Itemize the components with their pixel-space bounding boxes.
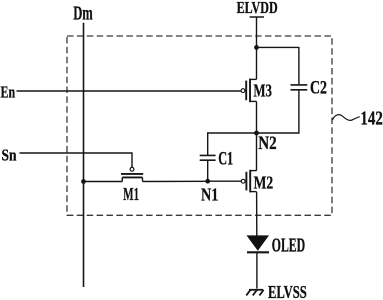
- svg-text:C1: C1: [218, 149, 233, 169]
- wire N1 to M2 gate: [208, 180, 242, 182]
- wire C1 bottom to N1: [207, 160, 209, 181]
- pixel circuit boundary 142 (dashed box): [67, 36, 332, 215]
- reference leader squiggle for 142: [332, 115, 360, 121]
- svg-text:M2: M2: [254, 174, 274, 193]
- svg-text:Dm: Dm: [73, 2, 93, 25]
- transistor M2: [241, 170, 256, 193]
- transistor M3: [241, 79, 256, 103]
- junction dot ELVDD branch: [254, 45, 259, 50]
- wire enable line En to M3 gate: [17, 90, 242, 92]
- wire scan line Sn to M1 gate: [20, 153, 133, 167]
- wire M2 source to OLED anode: [256, 192, 258, 236]
- wire N2 to C1 top: [208, 133, 257, 156]
- power terminal bar ELVDD: [250, 16, 264, 18]
- junction node N2: [254, 131, 259, 136]
- svg-text:C2: C2: [310, 76, 327, 98]
- wire M3 source to N2: [256, 101, 258, 133]
- wire OLED cathode to ground: [256, 252, 258, 288]
- wire data line Dm: [83, 23, 85, 287]
- svg-text:ELVDD: ELVDD: [237, 0, 278, 17]
- svg-text:M1: M1: [123, 185, 139, 204]
- svg-text:OLED: OLED: [272, 236, 305, 257]
- diode OLED: [247, 235, 270, 252]
- transistor M1: [121, 167, 143, 181]
- capacitor C1: [200, 155, 216, 160]
- wire C2 bottom to node N2: [257, 90, 299, 133]
- svg-text:ELVSS: ELVSS: [268, 283, 307, 300]
- junction dot Dm to M1 wire: [81, 179, 86, 184]
- wire Dm to M1 source: [84, 181, 123, 183]
- wire N2 to M2 drain: [256, 133, 258, 171]
- wire branch node to M3 drain: [256, 47, 258, 79]
- svg-text:Sn: Sn: [2, 146, 17, 165]
- svg-text:142: 142: [360, 106, 382, 129]
- junction node N1: [205, 179, 210, 184]
- svg-text:N1: N1: [201, 185, 218, 205]
- svg-text:N2: N2: [258, 133, 276, 154]
- wire ELVDD to branch node: [256, 17, 258, 47]
- svg-text:En: En: [1, 84, 16, 102]
- svg-text:M3: M3: [253, 81, 272, 101]
- wire M1 drain to N1: [143, 180, 208, 182]
- wire branch node to C2 top: [257, 47, 299, 85]
- capacitor C2: [291, 85, 308, 90]
- ground symbol ELVSS: [246, 290, 263, 296]
